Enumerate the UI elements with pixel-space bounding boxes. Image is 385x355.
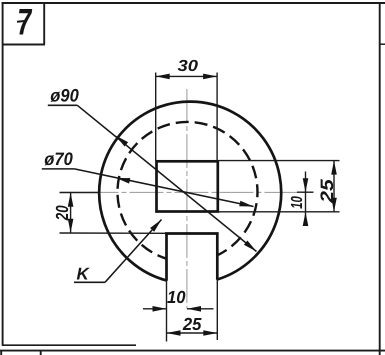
dim 20 line (70, 193, 72, 233)
right border row tick (380, 43, 385, 45)
arrow dim30 right (203, 74, 217, 80)
arrow dim30 left (156, 74, 170, 80)
outer circle Ø90 (notched at bottom slot) (99, 102, 281, 281)
dim 30 extension lines (155, 73, 157, 162)
centerline tick right (297, 191, 314, 193)
svg-text:10: 10 (289, 196, 306, 209)
number box (2, 2, 45, 45)
dim 20 extension top (60, 192, 100, 194)
next-row cell number-box tick (40, 350, 42, 355)
svg-text:20: 20 (52, 205, 72, 221)
dim 25 right line (333, 161, 335, 212)
thin lines group (60, 73, 340, 342)
svg-text:10: 10 (167, 287, 186, 307)
arrow dim20 down (68, 219, 74, 233)
arrow dim25right down (331, 198, 337, 212)
arrow Ø70 left (116, 178, 130, 184)
svg-text:25: 25 (182, 314, 202, 334)
svg-text:30: 30 (178, 58, 199, 75)
arrow Ø90 lower (244, 241, 257, 252)
arrow dim10right down (303, 178, 309, 192)
dim 20 extension bottom (60, 232, 166, 234)
arrowheads (68, 74, 337, 336)
arrow dim25right up (331, 161, 337, 175)
arrow Ø90 upper (116, 136, 129, 147)
arrow dim10bottom right (153, 306, 167, 312)
rect top extension right (219, 160, 340, 162)
dim 10 bottom line (143, 308, 167, 310)
inner rectangle 30x25 (157, 161, 218, 211)
Ø90 leader (48, 104, 78, 106)
arrow dim20 up (68, 193, 74, 207)
arrow dim10right up (303, 212, 309, 226)
horizontal centerline (60, 191, 314, 193)
vertical centerline (186, 89, 188, 309)
rect bottom extension right (219, 211, 340, 213)
arrow dim25bottom left (167, 330, 181, 336)
slot left extension down (166, 281, 168, 342)
slot right extension down (216, 280, 218, 341)
bottom-left inner border stub (2, 344, 136, 346)
svg-text:25: 25 (317, 178, 337, 204)
svg-text:ø90: ø90 (50, 86, 79, 106)
dim 10 right line (305, 172, 307, 224)
svg-text:ø70: ø70 (44, 149, 73, 169)
arrow Ø70 right (239, 201, 253, 207)
dashed circle Ø70 (117, 122, 257, 259)
dim 25 bottom line (167, 332, 218, 334)
svg-text:K: K (77, 264, 91, 283)
Ø70 leader (42, 168, 75, 170)
arrow dim10bottom left (187, 306, 201, 312)
K leader (74, 281, 105, 283)
bottom slot outline (165, 234, 219, 281)
arrow K (150, 220, 161, 232)
dim 30 line (156, 75, 217, 77)
arrow dim25bottom right (203, 330, 217, 336)
